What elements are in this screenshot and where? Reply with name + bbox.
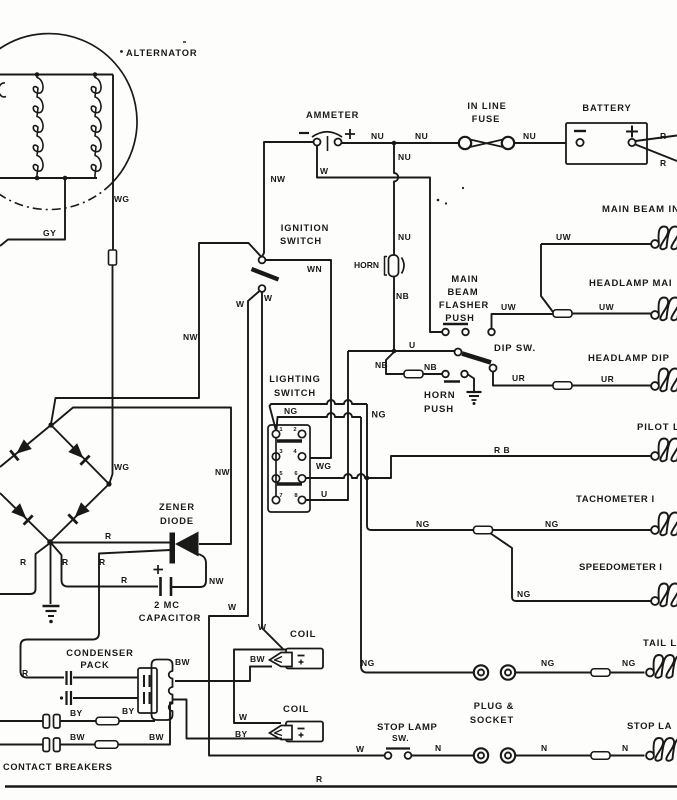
wire WN ignition-to-lighting [266,260,332,458]
wire NW rectifier-to-zener [51,408,231,545]
node U junction [392,349,397,354]
svg-text:FLASHER: FLASHER [439,300,489,310]
node rectifier bottom [47,539,53,545]
flasher push third contact [488,329,495,336]
battery plus [626,126,638,138]
node stator top joints [35,72,40,77]
svg-text:UW: UW [556,232,572,242]
svg-text:NU: NU [415,131,428,141]
node rectifier right WG [106,481,111,486]
connector UR [553,382,572,390]
wire NG speedo [490,533,651,601]
svg-text:STOP LAMP: STOP LAMP [377,722,438,733]
rectifier arm top-right [51,425,109,484]
svg-text:LIGHTING: LIGHTING [269,374,321,384]
wire BW to coil1 [175,667,272,682]
ignition switch terminal upper [259,257,266,264]
svg-text:PUSH: PUSH [445,313,474,323]
rectifier arm bottom-right [50,484,109,542]
svg-text:N: N [541,743,548,753]
wire UW to headlamp main [572,313,651,315]
ground at rectifier [43,605,60,607]
wire NW rectifier-to-ignition [51,243,261,424]
svg-text:W: W [264,293,273,303]
svg-text:R: R [99,557,106,567]
svg-text:MAIN: MAIN [451,274,478,284]
wire to horn push button [423,373,442,375]
svg-text:BW: BW [250,654,266,664]
wire battery R upper [636,136,677,142]
lighting switch bar 5-6 [277,482,302,485]
zener triangle [175,532,199,557]
partial coil at left edge [0,83,6,97]
coil1 polarity [298,655,305,657]
lamp main beam indicator [651,240,659,248]
svg-text:NW: NW [209,576,225,586]
svg-text:STOP LA: STOP LA [627,721,672,732]
svg-text:NG: NG [622,658,636,668]
svg-text:UW: UW [599,302,615,312]
horn push bar [444,380,460,383]
svg-text:SWITCH: SWITCH [280,236,322,246]
wire rectifier to ground [50,544,52,604]
wire stator bottom bus [0,177,97,179]
wire N stop 2 [516,755,592,757]
svg-text:R: R [20,557,27,567]
svg-text:NG: NG [372,410,387,420]
svg-text:NU: NU [371,131,384,141]
svg-text:BY: BY [235,729,248,739]
fuse crossover [470,140,503,148]
condenser pack outer shell [152,660,173,721]
svg-text:CONDENSER: CONDENSER [66,648,134,658]
wire N stop 1 [412,755,474,757]
wire U switch 8 [306,351,348,500]
wire flasher to UW node [492,314,554,329]
svg-text:R: R [316,774,323,784]
wire NG tail right [610,672,645,674]
svg-text:W: W [320,166,329,176]
connector NG tacho [474,526,493,534]
wire NU ammeter-fuse [342,142,460,144]
svg-text:NU: NU [398,152,411,162]
wire R bottom bus [5,785,677,787]
svg-text:NG: NG [517,589,531,599]
wire BY connector to bend [119,720,155,722]
svg-text:SPEEDOMETER I: SPEEDOMETER I [579,562,662,573]
lighting switch link 1-3-5-7 [275,438,277,497]
ground at horn push [467,391,482,393]
stator coil L2 [91,75,101,179]
stop lamp switch bar [386,747,410,749]
svg-text:IN LINE: IN LINE [467,101,506,111]
wire BY row [0,720,43,722]
svg-text:TAIL L: TAIL L [643,638,677,649]
lighting switch body [268,425,310,512]
connector NB horn push [404,370,423,378]
coil2 plug [270,726,293,740]
wire UW main beam vertical [541,244,553,312]
svg-text:IGNITION: IGNITION [281,223,330,233]
condenser row1 caps [143,675,145,687]
lighting switch terminals 1-8 [272,430,279,437]
svg-text:R: R [105,531,112,541]
wire ammeter to NW [262,142,314,257]
svg-text:W: W [228,602,237,612]
battery box [566,123,647,164]
svg-text:DIODE: DIODE [160,516,194,526]
wire stator top bus [0,74,113,76]
diode D1 [16,439,32,453]
svg-text:N: N [622,743,629,753]
wire into condenser row2 [73,697,138,699]
alternator housing circle [0,34,137,184]
lamp headlamp dip [651,382,659,390]
svg-text:R B: R B [494,445,510,455]
svg-text:NG: NG [541,658,555,668]
capacitor marks row2 [60,696,63,699]
scan speck 2 [462,187,464,189]
wire BW up to condenser [118,703,173,745]
svg-text:COIL: COIL [290,629,316,640]
svg-text:NB: NB [375,360,388,370]
svg-text:WG: WG [114,194,129,204]
svg-text:ALTERNATOR: ALTERNATOR [126,48,198,58]
diode D4 [11,503,26,518]
svg-text:2 MC: 2 MC [154,600,180,610]
ammeter needle [327,136,329,151]
wire R to zener [51,542,170,544]
wire NB horn down [393,277,395,352]
wire horn push to ground [468,375,474,392]
connector UW [553,310,572,318]
connector BY [96,717,119,725]
svg-text:NU: NU [523,131,536,141]
node rectifier top [48,422,53,427]
node NG junction [365,476,370,481]
wire WG lower [110,265,113,483]
ammeter minus sign [299,132,309,134]
wire R zener to condenser [21,550,171,678]
svg-text:BW: BW [70,732,86,742]
svg-text:WN: WN [307,264,322,274]
svg-text:SWITCH: SWITCH [274,388,316,398]
ammeter plus sign [345,129,355,139]
svg-text:UR: UR [601,374,614,384]
svg-text:R: R [22,668,29,678]
svg-text:BW: BW [149,732,165,742]
connector NG tail [591,669,610,677]
svg-text:R: R [660,158,667,168]
svg-text:HEADLAMP MAI: HEADLAMP MAI [589,278,672,289]
svg-text:PACK: PACK [80,660,109,670]
connector N stop [591,752,610,760]
svg-text:U: U [321,489,328,499]
condenser row2 caps [143,692,145,704]
svg-text:R: R [660,131,667,141]
svg-text:W: W [239,712,248,722]
wire NG tacho right [493,529,652,531]
svg-text:BW: BW [175,657,191,667]
svg-text:SW.: SW. [392,733,409,743]
svg-text:TACHOMETER I: TACHOMETER I [576,494,655,505]
capacitor plates [159,577,162,596]
svg-text:R: R [121,575,128,585]
svg-text:R: R [62,557,69,567]
wire NU vertical to horn [394,143,398,255]
wire BW to connector [61,744,96,746]
ammeter scale arc [312,132,342,137]
ignition switch blade [252,269,279,280]
svg-text:WG: WG [316,461,331,471]
lamp tachometer [651,526,659,534]
condenser pack inner box [138,668,157,713]
wire W ignition left leg [209,291,385,756]
svg-text:W: W [258,622,267,632]
contact breaker points BW [43,738,50,752]
svg-text:NU: NU [398,232,411,242]
plug and socket tail [474,665,488,679]
wire R to capacitor [51,543,158,587]
lamp pilot [651,452,659,460]
wire into condenser row1 [73,677,138,679]
contact breaker points BY [43,715,50,729]
coil1 body [286,649,323,669]
coil2 body [286,722,323,742]
wire UR to connector [493,372,553,386]
svg-text:NW: NW [271,174,287,184]
wire switch 6 to RB [306,456,651,478]
coil1 plug [270,653,293,667]
svg-text:NG: NG [416,519,430,529]
svg-text:NW: NW [183,332,199,342]
wire BY to coil2 [173,700,282,739]
svg-text:UR: UR [512,373,525,383]
wire BY to connector [61,720,97,722]
wire battery R lower [636,145,677,162]
wire W ignition right leg [262,292,284,650]
svg-text:NG: NG [545,519,559,529]
svg-text:MAIN BEAM IND: MAIN BEAM IND [602,204,677,215]
svg-text:BY: BY [122,706,135,716]
lighting switch bar 1-2 [277,439,302,442]
svg-text:U: U [409,340,416,350]
dip switch blade [462,354,491,363]
svg-text:HORN: HORN [424,390,456,401]
wire UW main beam row [541,243,651,245]
lamp headlamp main [651,311,659,319]
ammeter terminals [314,139,321,146]
stator coil L1 [33,75,43,179]
svg-text:CAPACITOR: CAPACITOR [139,613,202,623]
wire N stop 3 [610,755,645,757]
flasher push bar [443,323,468,326]
rectifier arm top-left [0,425,51,467]
svg-text:7: 7 [279,493,282,499]
wire BW row [0,744,43,746]
svg-text:HORN: HORN [354,260,379,270]
stop lamp switch contacts [385,752,392,759]
fuse terminals [459,137,471,149]
lamp stop [646,752,654,760]
wire WG vertical [112,75,114,251]
wire NG tail mid [516,672,592,674]
battery minus [574,130,586,132]
dip switch terminal upper [455,349,462,356]
rectifier arm bottom-left [0,493,50,542]
diode D2 [68,443,83,458]
wire NG feed lower [277,413,362,430]
lamp speedometer [651,597,659,605]
svg-text:NW: NW [215,467,231,477]
lamp tail [646,669,654,677]
svg-text:PUSH: PUSH [424,404,454,415]
coil2 polarity [298,728,305,730]
wire W ammeter-to-flasher [317,146,442,333]
node NU junction [392,141,397,146]
svg-text:NB: NB [424,362,437,372]
svg-text:COIL: COIL [283,704,309,715]
wire GY [0,178,65,246]
capacitor plus [154,565,164,574]
wire NU fuse-battery [514,142,566,144]
wire U bus [348,350,455,352]
connector in WG wire [109,250,117,265]
wire NG vertical to tacho [367,404,474,530]
svg-text:NB: NB [396,291,409,301]
svg-text:BEAM: BEAM [448,287,479,297]
svg-text:W: W [356,744,365,754]
svg-text:CONTACT BREAKERS: CONTACT BREAKERS [3,762,113,772]
zener bar [170,533,176,564]
flasher push contacts [442,329,449,336]
node stator bottom joints [35,176,40,181]
svg-text:W: W [236,299,245,309]
svg-text:AMMETER: AMMETER [306,110,359,120]
wire zener to NW corner [172,554,206,587]
svg-text:SOCKET: SOCKET [470,715,514,725]
svg-text:N: N [435,743,442,753]
wire NG long vertical to tail [361,417,473,673]
svg-text:BY: BY [70,708,83,718]
ignition switch terminal lower [259,285,266,292]
wire W coil bus [234,650,286,724]
wire NB to horn push [386,352,404,374]
connector BW [95,741,118,749]
svg-text:WG: WG [114,462,129,472]
svg-text:FUSE: FUSE [472,114,500,124]
wire R to left edge [0,543,50,594]
svg-text:PILOT LA: PILOT LA [637,422,677,433]
svg-text:BATTERY: BATTERY [582,103,631,113]
wire UR to headlamp dip [572,385,651,387]
svg-text:NG: NG [284,406,298,416]
scan speck 1 [437,199,440,202]
svg-text:UW: UW [501,302,517,312]
svg-text:ZENER: ZENER [159,502,195,512]
capacitor marks row1 [65,671,67,685]
scan speck 3 [183,41,186,43]
plug and socket stop [474,748,488,762]
wire NG feed upper [270,400,368,431]
horn body [389,255,399,277]
diode D3 [75,502,90,517]
svg-text:DIP SW.: DIP SW. [494,343,536,354]
horn push contacts [442,371,449,378]
dip switch terminal lower [490,365,497,372]
svg-text:2: 2 [293,427,296,433]
svg-text:HEADLAMP DIP: HEADLAMP DIP [588,353,670,364]
svg-text:PLUG &: PLUG & [474,701,515,711]
svg-text:NG: NG [361,658,375,668]
svg-text:GY: GY [43,228,56,238]
